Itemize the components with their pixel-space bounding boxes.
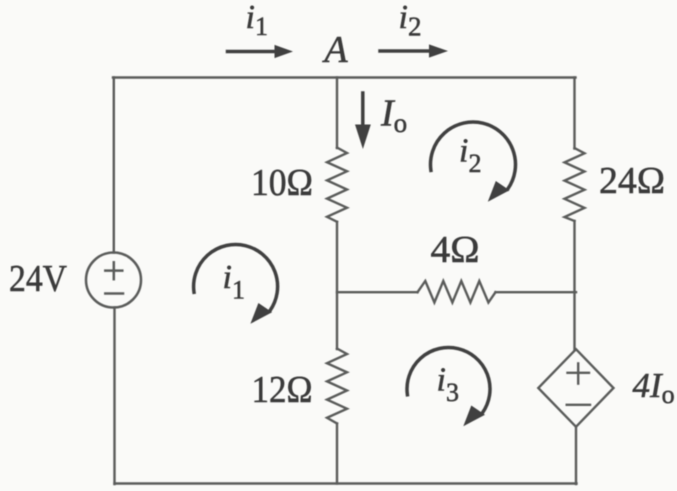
svg-text:4Io: 4Io xyxy=(633,366,675,409)
wire bottom rail xyxy=(115,482,577,484)
svg-text:24Ω: 24Ω xyxy=(599,160,665,202)
svg-text:10Ω: 10Ω xyxy=(251,162,313,204)
current arrow i2 (top right) xyxy=(380,44,448,57)
svg-text:i3: i3 xyxy=(437,362,459,408)
svg-text:12Ω: 12Ω xyxy=(252,369,313,411)
svg-text:4Ω: 4Ω xyxy=(431,229,480,271)
wire left branch lower xyxy=(113,308,115,485)
svg-text:Io: Io xyxy=(380,93,407,139)
mesh arrow i3 xyxy=(407,348,490,427)
wire middle branch bottom (12ohm to bottom rail) xyxy=(336,424,338,484)
wire middle branch top (A to 10ohm) xyxy=(336,78,338,149)
svg-text:i1: i1 xyxy=(223,259,245,305)
wire left branch upper xyxy=(113,78,115,253)
svg-text:A: A xyxy=(321,29,348,71)
dependent source U1 4Io diamond xyxy=(538,349,613,427)
wire right branch top (to 24ohm) xyxy=(573,78,575,149)
resistor R3 4ohm xyxy=(418,281,496,303)
wire middle branch mid (10ohm to 12ohm) xyxy=(336,222,338,349)
mesh arrow i1 xyxy=(194,245,278,324)
voltage source V1 24V xyxy=(86,253,141,308)
wire middle horizontal right part xyxy=(496,291,577,293)
mesh arrow i2 xyxy=(430,122,515,202)
wire right branch mid (24ohm to diamond) xyxy=(573,221,575,350)
resistor R4 24ohm xyxy=(565,148,585,221)
svg-text:24V: 24V xyxy=(9,258,67,300)
current arrow i1 (top left) xyxy=(228,45,294,58)
resistor R2 12ohm xyxy=(327,349,347,424)
current arrow Io (below node A) xyxy=(355,93,371,149)
wire top (node A rail) xyxy=(113,76,576,78)
resistor R1 10ohm xyxy=(327,148,347,222)
wire right branch bottom (diamond to bottom rail) xyxy=(575,427,577,484)
svg-text:i2: i2 xyxy=(459,133,481,179)
wire middle horizontal (to 4ohm) left part xyxy=(337,291,418,293)
svg-text:i2: i2 xyxy=(399,0,422,42)
svg-text:i1: i1 xyxy=(246,0,268,41)
